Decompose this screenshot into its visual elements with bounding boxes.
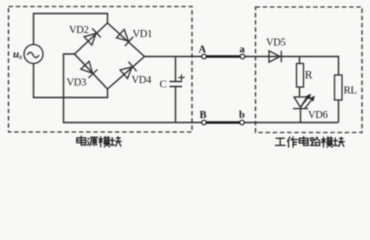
wire: top rail from right vertex to terminal A [145,56,202,58]
svg-text:VD4: VD4 [132,75,153,86]
capacitor C plates [170,82,183,87]
svg-text:a: a [240,45,246,56]
LED VD6 (triangle pointing down with cathode bar) [293,97,308,109]
glyph 作 [287,137,297,147]
svg-text:VD3: VD3 [67,78,87,89]
wire: capacitor branch bottom [175,87,177,123]
svg-text:VD1: VD1 [133,29,153,40]
glyph 块 [110,137,121,146]
svg-text:C: C [160,79,167,91]
wire: AC source top lead to bridge top vertex [34,14,108,45]
connector bar A-a [206,55,240,57]
wire: bridge diamond bottom-right side [108,57,145,90]
wire: bridge diamond top-left side [75,23,108,54]
resistor RL [335,75,343,100]
connector bar B-b [206,121,240,123]
power module dashed box [9,7,193,133]
LED emission arrows [301,95,314,109]
diode VD4 (bottom-right arm, cathode toward right vertex) [120,62,137,79]
glyph 电 [77,136,86,145]
terminal B [202,120,207,125]
diode VD3 (bottom-left arm, cathode toward bottom vertex) [80,61,97,78]
terminal a [240,54,245,59]
svg-text:A: A [199,45,207,56]
module label: 电源模块 (hand-drawn glyphs) [77,136,121,147]
glyph 电 [299,136,308,145]
glyph 源 [87,137,97,145]
work module dashed box [256,7,363,133]
svg-text:B: B [200,110,207,121]
glyph 模 [99,137,110,147]
svg-text:VD5: VD5 [266,38,286,49]
glyph 块 [333,137,344,146]
capacitor plus sign [178,74,184,80]
svg-text:VD6: VD6 [308,110,328,121]
wire: bridge diamond bottom-left side [75,54,108,89]
wire: R branch from rail to resistor R [299,57,301,65]
wire: top rail from terminal a into work module [245,57,339,76]
svg-text:RL: RL [344,85,358,97]
resistor R [297,64,304,88]
wire: resistor R to LED VD6 [299,87,301,97]
wire: RL to bottom rail [338,100,340,123]
wire: bottom rail from terminal b to RL branch [244,122,338,124]
glyph 模 [322,137,333,147]
diode VD1 (top-right arm, cathode toward right vertex) [116,29,133,46]
glyph 路 [310,137,320,145]
diode VD5 (series diode in work module) [269,51,281,62]
diode VD2 (top-left arm, cathode toward top vertex) [84,28,101,45]
wire: left vertex stub and drop to bottom rail [64,54,202,123]
AC source u_s [24,45,43,64]
wire: AC source bottom lead to bridge bottom vertex [34,64,108,98]
glyph 工 [275,138,285,145]
terminal A [202,54,207,59]
svg-text:b: b [239,110,245,121]
wire: capacitor branch top [175,57,177,82]
svg-text:R: R [305,69,313,81]
wire: bridge diamond top-right side [108,23,145,57]
module label: 工作电路模块 (hand-drawn glyphs) [275,136,344,147]
terminal b [240,120,245,125]
wire: LED VD6 to bottom rail [300,109,302,123]
svg-text:VD2: VD2 [69,25,89,36]
